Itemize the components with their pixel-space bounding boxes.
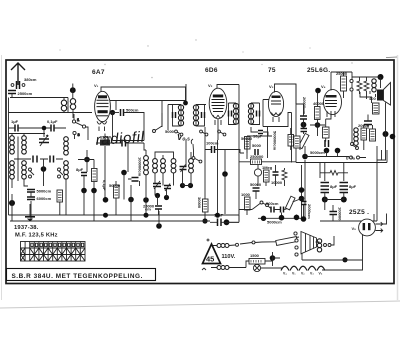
junction dot 25L6 grid (315, 88, 321, 94)
potentiometer tone (285, 196, 295, 210)
svg-text:6A7: 6A7 (92, 69, 105, 76)
oscillator coil La (144, 156, 149, 175)
junction dot b291 (294, 215, 300, 221)
output transformer coil (372, 79, 376, 92)
capacitor 5000cm2 (250, 182, 262, 191)
svg-text:1500: 1500 (250, 253, 260, 258)
wire cap row (9, 128, 67, 137)
junction dot af right2 (299, 196, 305, 202)
switch mains (229, 241, 262, 246)
variable capacitor tuning (39, 135, 49, 146)
svg-text:20000cm: 20000cm (302, 97, 307, 114)
resistor 250000 (251, 159, 262, 165)
wire af drop (224, 174, 226, 214)
tube 6A7 V1 (94, 83, 110, 131)
junction dot bus c (215, 213, 220, 218)
svg-text:5000: 5000 (165, 129, 175, 134)
choke bottom (217, 266, 229, 270)
junction dot af (222, 171, 228, 177)
oscillator coil Lc (161, 159, 166, 173)
resistor bias (92, 169, 98, 182)
IFT1 secondary coil (193, 105, 198, 126)
wire antenna bus (10, 97, 68, 99)
wire bus links (238, 215, 240, 222)
capacitor osc top (122, 140, 126, 147)
wire 6D6 grid cap (217, 85, 239, 89)
wire lower row (9, 133, 46, 135)
wire output top (352, 77, 381, 88)
svg-text:50000: 50000 (241, 136, 253, 141)
svg-text:5000cm: 5000cm (37, 189, 52, 194)
junction dot mains (270, 255, 276, 261)
field coil (317, 239, 321, 252)
svg-text:0,1μF: 0,1μF (47, 119, 58, 124)
pencil mark above frame (386, 56, 397, 59)
IFT2 primary coil (233, 103, 238, 124)
svg-text:S.B.R 384U. MET TEGENKOPPELIN: S.B.R 384U. MET TEGENKOPPELING. (12, 273, 143, 280)
junction dot cap row (42, 126, 47, 131)
svg-text:1μF: 1μF (11, 119, 19, 124)
band coil L3b (10, 161, 15, 179)
svg-text:30000: 30000 (197, 197, 202, 209)
capacitor 10000cm (273, 165, 279, 182)
svg-text:50000: 50000 (250, 182, 262, 187)
svg-text:5000cm: 5000cm (310, 150, 325, 155)
svg-text:100000: 100000 (338, 207, 343, 221)
dial table (21, 242, 86, 262)
tube 25L6G V4 (321, 84, 342, 117)
svg-text:45: 45 (206, 255, 214, 264)
resistor 10000 (203, 199, 209, 212)
band coil L5 (64, 137, 69, 155)
wire bottom mid (159, 211, 239, 226)
svg-text:400: 400 (369, 96, 376, 101)
resistor 40000 (315, 107, 321, 120)
svg-text:15000: 15000 (100, 135, 112, 140)
wire mixer grid row (14, 158, 63, 160)
wire osc link (113, 101, 163, 141)
svg-text:6D6: 6D6 (205, 67, 218, 74)
wire mains links (211, 246, 282, 269)
junction dot osc2 (128, 197, 134, 203)
mains marks (202, 239, 210, 271)
svg-text:V₂: V₂ (301, 272, 305, 276)
svg-text:2000cm: 2000cm (307, 204, 312, 219)
capacitor af2 (281, 207, 284, 213)
junction dot osc2b (103, 197, 109, 203)
capacitor 500cm osc (121, 108, 139, 117)
switch S1b (29, 168, 35, 178)
svg-text:6000cm: 6000cm (37, 196, 52, 201)
junction dot mixer (41, 166, 47, 172)
resistor 0,5Meg (57, 190, 63, 202)
capacitor C osc pad (33, 156, 37, 163)
wire right column (364, 125, 386, 160)
wire osc last (158, 209, 160, 215)
capacitor C osc pad2 (50, 156, 54, 163)
capacitor 8000cm (300, 97, 307, 119)
junction dot b217 (279, 215, 285, 221)
wire left gnd drops (12, 188, 66, 221)
svg-text:110V.: 110V. (222, 254, 236, 260)
capacitor ps1 (325, 140, 329, 147)
svg-text:500000cm: 500000cm (273, 131, 278, 151)
wire af row (205, 127, 225, 199)
resistor 25000b (361, 128, 367, 140)
junction dot 11uF (224, 219, 230, 225)
switch af (260, 201, 269, 207)
IFT2 trim cap right (257, 111, 260, 117)
wire ant coil top (68, 84, 73, 113)
capacitor 100000cm r (330, 207, 343, 221)
antenna coil L1 (61, 100, 66, 111)
junction dot bus205 (202, 218, 207, 223)
wire filter bottom (304, 197, 378, 221)
resistor ballast diagonal (262, 237, 299, 246)
resistor box osc (100, 140, 110, 146)
svg-text:V₂: V₂ (208, 83, 213, 88)
capacitor 500cm af (266, 201, 279, 213)
trimmer cap t1 (153, 181, 161, 189)
wire filter row (320, 163, 348, 182)
wire det links (310, 91, 325, 137)
tube 25Z5 V5 (352, 219, 383, 236)
trimmer cap t2 (164, 184, 171, 192)
svg-text:50000: 50000 (109, 183, 121, 188)
switch S1a (72, 114, 88, 140)
speaker (377, 83, 391, 106)
junction dot b263 (261, 216, 266, 221)
svg-text:1Meg: 1Meg (262, 165, 273, 170)
oscillator coil Ld (171, 159, 176, 173)
capacitor output el (364, 121, 372, 125)
wire det drop (288, 84, 304, 163)
junction dot avc (84, 157, 90, 163)
junction dot det (301, 122, 307, 128)
antenna coil L2 (70, 99, 75, 110)
junction dot osc5 (164, 195, 169, 200)
wire 6A7 anode row (110, 101, 186, 167)
switch band contacts c (200, 130, 208, 136)
resistor 1Meg (264, 170, 270, 182)
svg-text:V₃: V₃ (269, 84, 274, 89)
capacitor 8uF b (340, 183, 357, 193)
resistor det load (288, 128, 294, 150)
junction dot avc2 (81, 188, 87, 194)
wire left column (8, 98, 10, 216)
wire af mid links (225, 127, 302, 218)
junction dot gnd left (9, 200, 15, 206)
capacitor 2000cm l (301, 202, 312, 220)
junction dot osc3 (143, 197, 149, 203)
resistor 50000 (245, 137, 251, 150)
IFT1 primary coil (178, 105, 183, 126)
wire B rail (296, 146, 387, 221)
resistor zigzag filter (327, 171, 341, 176)
capacitor 100cm (206, 141, 219, 154)
wire bottom right links (302, 236, 363, 270)
band coil L4 (22, 136, 27, 154)
wire screen drop (351, 95, 353, 138)
svg-text:100cm: 100cm (206, 141, 219, 146)
oscillator coil Le (189, 159, 194, 173)
svg-text:75: 75 (268, 67, 276, 74)
svg-text:V₄: V₄ (321, 84, 326, 89)
band coil L4b (22, 161, 27, 179)
svg-text:V₅: V₅ (352, 226, 357, 231)
svg-text:250000: 250000 (250, 154, 264, 159)
capacitor 25000cm (143, 204, 162, 212)
svg-text:V₁: V₁ (292, 272, 296, 276)
IFT1 trim cap right (202, 112, 205, 118)
junction dot osc7 (188, 183, 193, 188)
potentiometer vertical box (294, 136, 300, 148)
wire IFT1 frame (168, 84, 206, 130)
wire 6A7 osc grid (110, 112, 119, 114)
switch band contacts d (218, 130, 226, 136)
svg-text:V₁: V₁ (94, 83, 99, 88)
resistor zigzag NFB2 (364, 78, 369, 94)
junction dot osc1 (121, 170, 127, 176)
mains triangle (203, 244, 221, 264)
junction dot frame right (390, 134, 396, 140)
capacitor 6000cm (27, 196, 52, 201)
wire avc drop (84, 191, 94, 222)
wire filter drops (325, 193, 344, 211)
capacitor 100000cm (132, 157, 143, 181)
wire tube input row (9, 112, 93, 114)
svg-text:500cm: 500cm (266, 201, 279, 206)
capacitor 10uF det (251, 127, 268, 139)
wire IFT2 frame (229, 85, 260, 125)
capacitor 5000cm (27, 189, 52, 194)
oscillator coil Lb (153, 159, 158, 173)
resistor zigzag af (282, 168, 287, 182)
switch ps contacts (350, 143, 360, 160)
resistor 25000 screen (341, 72, 347, 98)
svg-text:40000: 40000 (313, 101, 325, 106)
svg-text:2500cm: 2500cm (18, 91, 33, 96)
wire IFT2 drop (238, 103, 240, 214)
junction dot ps1 (324, 148, 330, 154)
junction dot bus a (103, 213, 108, 218)
wire avc (78, 150, 94, 190)
heater chain scallops (281, 266, 325, 270)
junction dot f1 (322, 197, 328, 203)
field contacts (324, 244, 332, 247)
capacitor 0,1uF (47, 119, 58, 132)
resistor 25L6 cathode (323, 115, 332, 142)
ground symbol left (25, 204, 35, 221)
junction dot psu right (342, 257, 347, 262)
IFT2 trim cap left (229, 111, 232, 117)
lamp fuse (253, 264, 260, 271)
capacitor 8uF avc (76, 167, 87, 176)
switch S1c (58, 168, 64, 178)
potentiometer det diagonal (298, 132, 309, 151)
page edge shadow left (1, 55, 3, 300)
junction dot af right1 (299, 187, 305, 193)
switch avc contacts (191, 139, 202, 163)
wire coil bottoms (12, 159, 66, 188)
svg-text:8μF: 8μF (76, 167, 84, 172)
svg-text:100000cm: 100000cm (138, 157, 143, 177)
trimmer cap t3 (180, 165, 187, 173)
junction dot output bottom (383, 131, 389, 137)
resistor mains box (249, 259, 265, 265)
junction dot f2 (341, 197, 347, 203)
svg-text:8μF: 8μF (330, 184, 338, 189)
wire grid line to 6A7 (64, 98, 73, 119)
IFT2 secondary coil (248, 103, 253, 124)
svg-text:1937-38.: 1937-38. (14, 225, 39, 231)
capacitor 2500cm (8, 91, 33, 98)
resistor voice (373, 103, 380, 114)
heater labels (283, 272, 323, 276)
svg-text:V₄: V₄ (283, 272, 287, 276)
schematic frame (6, 60, 394, 284)
wire 75 grid cap (275, 84, 297, 104)
svg-text:380cm: 380cm (24, 77, 37, 82)
resistor zigzag NFB1 (357, 78, 362, 94)
capacitor 8uF a (321, 183, 338, 193)
svg-text:500cm: 500cm (126, 108, 139, 113)
svg-text:20000: 20000 (358, 123, 370, 128)
junction dot det2 (315, 122, 321, 128)
svg-text:25L6G.: 25L6G. (307, 67, 330, 74)
wire af bottom links (205, 141, 302, 221)
junction dot IFT1 (183, 101, 188, 106)
switch osc contact (153, 130, 156, 133)
ground bus left (9, 214, 240, 216)
junction dot avc3 (91, 188, 97, 194)
resistor output2 (370, 129, 376, 141)
wire osc bottoms (116, 170, 191, 222)
svg-text:5000: 5000 (252, 143, 262, 148)
junction dot ant (70, 87, 76, 93)
band coil L5b (64, 161, 69, 179)
choke top (217, 244, 229, 248)
junction dot ps3 (302, 154, 308, 160)
junction dot 6A7 anode (110, 110, 115, 115)
resistor 50000 osc (114, 185, 120, 198)
wire tuning row (12, 134, 44, 136)
svg-text:V₅: V₅ (319, 272, 323, 276)
capacitor 1uF (11, 119, 19, 132)
svg-text:0,1μF: 0,1μF (102, 180, 107, 191)
capacitor 5000cm det (252, 143, 262, 155)
title box (7, 269, 156, 281)
output transformer primary coil (354, 128, 358, 146)
junction dot s159 (156, 223, 162, 229)
IFT1 trim cap left (173, 112, 176, 118)
svg-text:M.F. 123,5 KHz: M.F. 123,5 KHz (15, 233, 58, 239)
junction dot output top (378, 74, 384, 80)
switch band contacts b (175, 130, 183, 136)
junction dot osc6 (180, 183, 185, 188)
potentiometer volume (254, 165, 261, 176)
band coil L3 (10, 136, 15, 154)
capacitor 11uF (214, 213, 224, 227)
wire 25Z5 (363, 214, 387, 261)
junction dot osc4 (155, 193, 160, 198)
tube 75 V3 (268, 84, 283, 122)
page edge shadow right (397, 55, 399, 300)
junction dot bus b (144, 213, 149, 218)
junction dot bottom301 (301, 216, 307, 222)
capacitor det2 (301, 129, 308, 132)
tube 6D6 V2 (208, 83, 227, 215)
svg-text:25000: 25000 (336, 71, 348, 76)
wire osc coils top (144, 143, 191, 159)
wire band coil core (17, 137, 19, 182)
wire 6A7 grid cap (101, 87, 186, 105)
extra value labels for texture (100, 71, 376, 258)
svg-text:10000: 10000 (271, 180, 283, 185)
switch contact pair (350, 79, 353, 91)
wire 25L6 top (331, 72, 352, 95)
capacitor 380cm (11, 77, 37, 89)
wire 75 box (263, 100, 288, 127)
junction dot ps2 (335, 148, 341, 154)
page edge shadow bottom (0, 301, 400, 308)
svg-text:8μF: 8μF (349, 184, 357, 189)
scan speckles (59, 39, 352, 78)
resistor 1000 (245, 197, 251, 210)
svg-text:5000cm: 5000cm (267, 220, 282, 225)
svg-text:25Z5 .: 25Z5 . (349, 209, 369, 216)
svg-text:V₃: V₃ (310, 272, 314, 276)
svg-text:1000: 1000 (241, 192, 251, 197)
speaker field assembly (301, 232, 317, 254)
wire ps top (305, 138, 366, 219)
antenna (11, 63, 25, 85)
wire osc top row (96, 134, 144, 200)
contact circles column (294, 232, 298, 256)
ground bus main (10, 221, 239, 222)
wire output right (360, 91, 386, 134)
